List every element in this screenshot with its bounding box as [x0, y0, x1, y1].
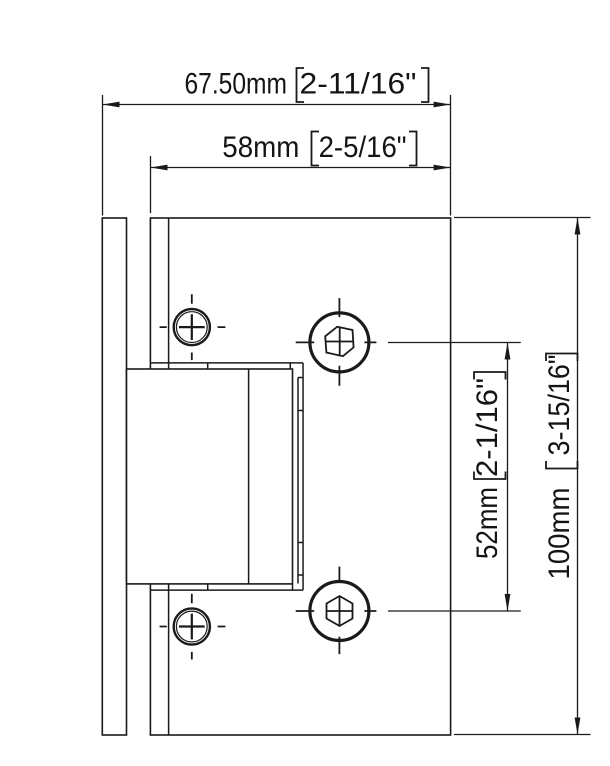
dim 100 bottom extension line: [454, 734, 591, 736]
hex screw upper outer circle: [310, 313, 369, 372]
screw hole upper-left outer circle: [174, 309, 210, 345]
svg-text:2-1/16": 2-1/16": [471, 378, 504, 477]
label 100mm rotated: [543, 354, 578, 580]
hex screw upper socket hexagon: [325, 327, 353, 357]
dim 100 top arrow: [575, 218, 581, 235]
screw hole upper-left cross: [179, 314, 205, 340]
clamp block: [127, 369, 293, 584]
hex screw lower outer circle: [310, 582, 369, 641]
mounting plate: [150, 218, 450, 735]
dim right extension line: [450, 95, 452, 216]
wall plate: [102, 218, 126, 735]
dim 58 line: [151, 167, 451, 169]
label 58 bracket close: [409, 132, 417, 166]
screw hole upper-left inner circle: [176, 312, 207, 343]
dim 52 top arrow: [505, 343, 511, 360]
dim 58 right arrow: [434, 165, 451, 171]
svg-text:2-11/16": 2-11/16": [300, 68, 417, 101]
svg-text:67.50mm: 67.50mm: [185, 68, 288, 101]
label 67.50 bracket close: [421, 68, 429, 102]
dim 58 left arrow: [151, 165, 168, 171]
dim 100 bottom arrow: [575, 718, 581, 735]
dim 67.50 left arrow: [103, 102, 120, 108]
hex screw lower centerline dashes: [296, 567, 377, 655]
recess top step divider: [208, 363, 291, 369]
label 67.50 bracket open: [297, 68, 305, 102]
label 58 bracket open: [312, 132, 320, 166]
recess top edge: [150, 362, 303, 364]
gasket inner edge: [297, 378, 299, 584]
screw hole lower-left centerline dashes: [160, 594, 226, 660]
mounting plate inner edge: [168, 218, 170, 735]
svg-text:58mm: 58mm: [222, 131, 299, 164]
screw hole lower-left inner circle: [176, 611, 207, 642]
dim 67.50 line: [103, 104, 451, 106]
dim 67.50 right arrow: [434, 102, 451, 108]
screw hole upper-left centerline dashes: [160, 294, 226, 360]
gasket ticks: [298, 378, 303, 576]
dim 100 line: [577, 218, 579, 735]
svg-text:100mm: 100mm: [543, 488, 576, 580]
screw hole lower-left outer circle: [174, 608, 210, 644]
svg-text:3-15/16": 3-15/16": [543, 355, 576, 456]
dim 58 extension line: [150, 156, 152, 213]
hex screw lower socket hexagon: [327, 596, 353, 626]
hex screw lower cross: [327, 596, 353, 626]
label 52mm rotated: [471, 372, 506, 559]
dim 52 bottom extension line: [388, 610, 521, 612]
recess bottom edge: [150, 589, 303, 591]
recess bottom step divider: [208, 584, 293, 590]
dim 100 top extension line: [454, 217, 591, 219]
dim 52 top extension line: [388, 342, 521, 344]
dim 52 line: [507, 343, 509, 612]
screw hole lower-left cross: [179, 614, 205, 640]
clamp block inner edge: [248, 369, 250, 584]
svg-text:2-5/16": 2-5/16": [319, 131, 407, 164]
hex screw upper cross: [326, 327, 354, 357]
dim 67.50 left extension line: [102, 95, 104, 216]
svg-text:52mm: 52mm: [471, 487, 504, 559]
dim 52 bottom arrow: [505, 594, 511, 611]
hex screw upper centerline dashes: [296, 298, 377, 386]
gasket outer edge: [302, 363, 304, 590]
